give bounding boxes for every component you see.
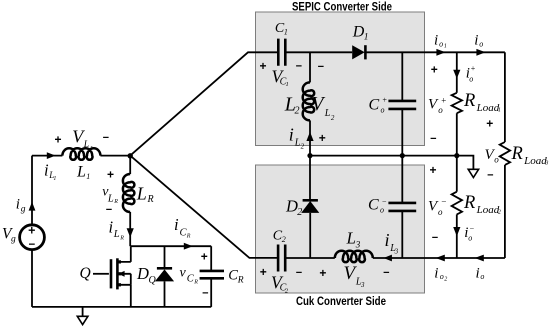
svg-text:+: +	[259, 59, 266, 73]
svg-text:R: R	[113, 199, 118, 205]
label Vg	[2, 226, 16, 245]
svg-text:−: −	[432, 232, 438, 244]
svg-text:o: o	[381, 105, 385, 114]
svg-text:o: o	[439, 39, 443, 48]
label L2	[284, 94, 300, 117]
arrow iCR right	[184, 243, 193, 250]
svg-text:o: o	[469, 74, 473, 83]
resistor RLoad2	[452, 192, 462, 215]
svg-text:g: g	[21, 205, 26, 215]
label L3	[346, 229, 361, 250]
svg-text:2: 2	[301, 143, 305, 151]
svg-text:+: +	[319, 131, 326, 145]
svg-text:+: +	[470, 64, 475, 73]
svg-text:−: −	[103, 132, 109, 144]
svg-text:C: C	[228, 268, 238, 284]
label iL3	[385, 230, 399, 256]
wire RLoad3 bottom lead	[504, 165, 506, 258]
inductor L2	[303, 82, 314, 120]
wire C2 to L3	[285, 257, 335, 259]
label io1	[434, 32, 447, 49]
arrow io left bottom	[475, 255, 484, 262]
svg-text:i: i	[109, 217, 114, 236]
svg-text:o: o	[380, 205, 384, 214]
ground symbol mid	[457, 156, 479, 178]
svg-text:−: −	[296, 61, 302, 73]
svg-text:o: o	[440, 272, 444, 281]
svg-text:1: 1	[286, 81, 289, 88]
svg-text:−: −	[469, 224, 474, 233]
resistor RLoad3	[500, 142, 510, 165]
svg-text:2: 2	[331, 114, 335, 122]
arrow ig up	[29, 202, 36, 211]
svg-text:Q: Q	[80, 265, 91, 282]
label io top	[474, 32, 483, 48]
wire RLoad1 bottom lead	[456, 113, 458, 155]
svg-text:1: 1	[284, 28, 288, 37]
svg-text:2: 2	[295, 106, 300, 117]
svg-text:L: L	[136, 184, 147, 204]
svg-text:1: 1	[444, 44, 447, 50]
svg-text:+: +	[107, 167, 114, 181]
svg-text:L: L	[83, 140, 89, 150]
svg-text:−: −	[487, 169, 493, 181]
svg-text:−: −	[106, 204, 112, 216]
svg-text:3: 3	[394, 248, 399, 256]
svg-text:SEPIC Converter Side: SEPIC Converter Side	[292, 0, 392, 13]
svg-text:D: D	[136, 264, 149, 283]
svg-text:o: o	[479, 39, 483, 48]
diode D1	[352, 45, 365, 59]
wire RLoad2 bottom lead	[456, 214, 458, 258]
svg-text:1: 1	[364, 32, 369, 42]
svg-text:o: o	[480, 272, 484, 281]
svg-text:C: C	[369, 97, 380, 114]
svg-text:L: L	[113, 229, 120, 240]
svg-text:o: o	[468, 233, 472, 242]
svg-text:2: 2	[282, 235, 286, 244]
svg-text:−: −	[441, 197, 447, 207]
svg-text:i: i	[174, 215, 179, 234]
label iLR	[109, 217, 125, 241]
arrow iL3 left	[384, 255, 392, 262]
arrow io right top	[476, 49, 485, 56]
label ig	[16, 197, 26, 215]
svg-text:R: R	[186, 233, 191, 239]
svg-text:−: −	[382, 197, 387, 206]
svg-text:1: 1	[53, 176, 56, 182]
wire L1 to node A	[100, 155, 130, 157]
svg-text:−: −	[318, 61, 324, 73]
label io2	[434, 265, 447, 282]
svg-text:L: L	[324, 108, 331, 119]
svg-text:R: R	[119, 235, 124, 241]
label RLoad3	[511, 144, 549, 167]
label iL2	[289, 124, 305, 150]
svg-text:i: i	[474, 32, 478, 48]
svg-text:C: C	[368, 197, 379, 214]
inductor L3	[335, 251, 373, 262]
wire from Vg to L1	[32, 155, 62, 157]
label Vo-	[428, 197, 447, 217]
label Vo+	[428, 96, 447, 115]
label C1	[275, 21, 288, 37]
svg-text:L: L	[346, 229, 356, 248]
capacitor Co+	[388, 101, 416, 109]
label Vo right	[485, 147, 500, 165]
svg-text:R: R	[463, 193, 475, 213]
svg-text:i: i	[385, 230, 390, 250]
junction dot L2/D2	[307, 153, 312, 158]
svg-text:+: +	[441, 96, 447, 106]
label io+	[466, 64, 476, 84]
ground symbol left	[77, 307, 88, 325]
label VL1	[72, 127, 93, 152]
svg-text:3: 3	[355, 239, 361, 249]
wire diagonal to Cuk input	[130, 156, 277, 258]
svg-text:R: R	[147, 194, 154, 205]
svg-text:V: V	[312, 94, 326, 115]
label vLR	[102, 184, 118, 205]
svg-text:i: i	[434, 265, 438, 281]
label vCR	[180, 265, 199, 285]
node A junction dot	[128, 153, 133, 158]
capacitor C2	[278, 245, 285, 272]
wire Co- to bottom bus	[401, 211, 403, 258]
arrow iLR down	[127, 228, 134, 237]
capacitor CR	[200, 246, 224, 307]
svg-text:i: i	[476, 265, 480, 281]
svg-text:1: 1	[498, 108, 501, 114]
svg-text:o: o	[438, 105, 443, 115]
wire top rail right of D1	[365, 51, 505, 53]
SEPIC converter shaded box	[256, 12, 425, 146]
svg-text:−: −	[202, 288, 208, 300]
capacitor C1	[278, 39, 285, 66]
label RLoad1	[463, 91, 501, 114]
label L1	[76, 163, 90, 181]
svg-text:Load: Load	[523, 155, 547, 167]
arrow io2 left	[436, 255, 445, 262]
label VL3	[344, 263, 366, 289]
label D2	[285, 197, 302, 219]
svg-text:+: +	[201, 249, 208, 263]
svg-text:3: 3	[360, 281, 365, 289]
label VC2	[271, 272, 289, 294]
wire Vg top lead	[31, 156, 33, 225]
label CR	[228, 268, 244, 286]
svg-text:i: i	[44, 160, 49, 179]
svg-text:+: +	[28, 223, 35, 237]
svg-text:+: +	[486, 117, 493, 131]
svg-text:−: −	[296, 267, 302, 279]
svg-text:R: R	[463, 91, 475, 111]
label iCR	[174, 215, 191, 239]
label DQ	[136, 264, 157, 286]
svg-text:−: −	[28, 239, 35, 251]
wire top to L2	[309, 52, 311, 82]
svg-text:+: +	[260, 265, 267, 279]
svg-text:2: 2	[297, 207, 302, 218]
svg-text:g: g	[11, 234, 16, 244]
label VL2	[312, 94, 335, 122]
inductor L1	[62, 148, 100, 159]
svg-text:R: R	[511, 144, 523, 164]
svg-text:Q: Q	[149, 275, 157, 286]
svg-text:+: +	[429, 163, 436, 177]
svg-text:+: +	[431, 63, 438, 77]
label Co-	[368, 197, 387, 215]
svg-text:Load: Load	[476, 102, 500, 114]
wire RLoad2 top lead	[456, 156, 458, 192]
svg-text:R: R	[193, 280, 198, 286]
arrow io- down	[453, 227, 460, 236]
wire C1 to D1	[285, 51, 352, 53]
wire L3 to box edge	[373, 257, 505, 259]
wire RLoad3 top lead	[504, 52, 506, 142]
wire LR to drain node	[129, 212, 131, 246]
svg-text:L: L	[76, 163, 86, 180]
source Vg circle	[20, 225, 45, 250]
wire bottom rail	[32, 306, 211, 308]
svg-text:Load: Load	[476, 204, 500, 216]
capacitor Co-	[388, 203, 416, 211]
label VC1	[272, 66, 289, 88]
label D1	[352, 23, 369, 42]
svg-text:Cuk Converter Side: Cuk Converter Side	[296, 294, 386, 308]
label io bottom	[476, 265, 485, 281]
svg-text:R: R	[237, 276, 244, 286]
arrow io+ down	[453, 70, 460, 79]
arrow iL1 right	[47, 152, 56, 159]
wire top to Co+	[401, 52, 403, 101]
diode D2	[301, 156, 319, 258]
inductor LR	[123, 174, 134, 212]
wire node A to LR	[129, 156, 131, 174]
junction dot load branch	[454, 153, 459, 158]
arrow io1 right	[436, 49, 445, 56]
svg-text:D: D	[285, 197, 298, 216]
svg-text:+: +	[382, 96, 387, 105]
svg-text:i: i	[289, 124, 294, 144]
svg-text:i: i	[434, 32, 438, 48]
diode DQ	[155, 246, 174, 307]
svg-text:1: 1	[90, 145, 93, 152]
svg-text:+: +	[54, 132, 61, 146]
wire Co+ through bus to Co-	[401, 109, 403, 203]
arrow iL2 up	[306, 132, 313, 141]
wire L2 to bus	[309, 120, 311, 155]
svg-text:3: 3	[544, 160, 548, 166]
wire mid bus	[310, 155, 457, 157]
wire RLoad1 top lead	[456, 52, 458, 93]
wire diagonal to SEPIC input	[130, 52, 277, 155]
resistor RLoad1	[452, 93, 462, 113]
svg-text:+: +	[319, 266, 326, 280]
label LR	[136, 184, 154, 206]
wire Vg bottom lead	[31, 250, 33, 307]
label C2	[273, 228, 286, 244]
label Co+	[369, 96, 388, 115]
transistor Q mosfet	[93, 246, 131, 307]
svg-text:−: −	[383, 267, 389, 279]
svg-text:2: 2	[498, 210, 501, 216]
svg-text:o: o	[438, 207, 443, 217]
label iL1	[44, 160, 56, 182]
svg-text:2: 2	[444, 276, 447, 282]
junction dot Co branch	[400, 153, 405, 158]
svg-text:1: 1	[86, 172, 90, 181]
label io-	[464, 224, 474, 243]
label RLoad2	[463, 193, 501, 216]
svg-text:−: −	[430, 133, 436, 145]
svg-text:v: v	[180, 265, 187, 280]
svg-text:i: i	[16, 197, 20, 213]
Cuk converter shaded box	[256, 165, 425, 293]
wire drain node across to CR	[131, 245, 211, 247]
